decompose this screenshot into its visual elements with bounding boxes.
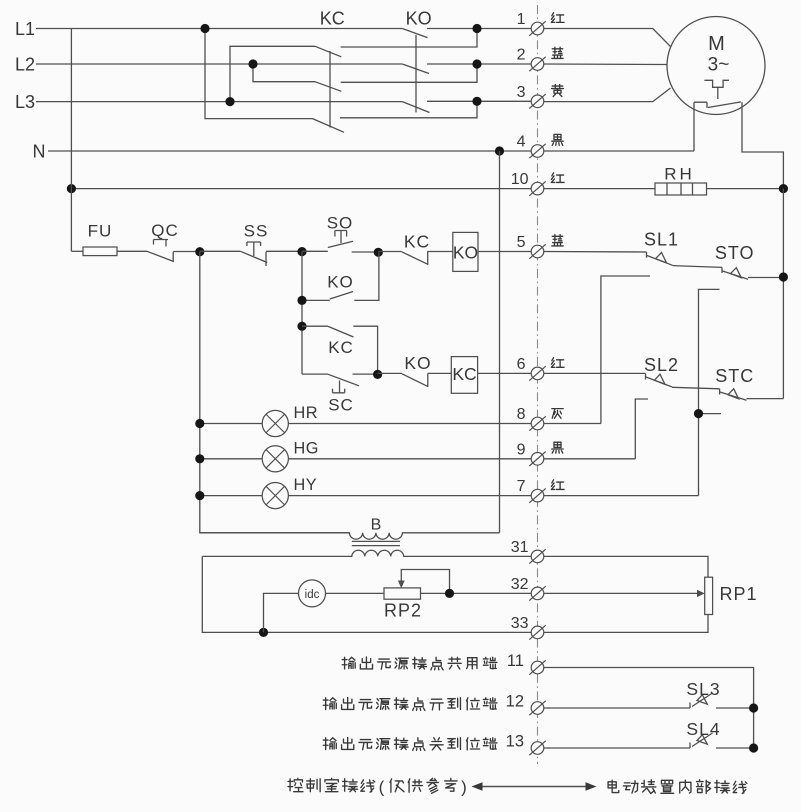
terminal 4 [531,145,544,158]
rheostat RP2 [384,588,421,599]
wire KC out to terminal 3 riser [340,101,477,118]
label colour 黑 [552,134,563,145]
label colour 红 [551,173,564,183]
wire terminal32 to RP1 wiper [544,592,699,594]
svg-text:RP2: RP2 [384,601,422,621]
terminal 33 [531,626,544,639]
svg-text:32: 32 [511,576,529,593]
svg-text:HG: HG [294,439,319,457]
wire RH to right bus [707,188,784,190]
node SO out [374,248,383,257]
terminal 2 [531,58,544,71]
potentiometer RP1 [705,577,713,614]
label terminal 12 description [323,698,336,710]
node KC hold top [297,322,306,331]
transformer secondary [202,550,531,556]
svg-text:11: 11 [507,652,524,670]
wire L2 branch to KC [253,64,315,82]
label colour 蓝 [552,47,563,58]
svg-text:KO: KO [406,9,432,29]
wire L1 drop to fuse [70,29,72,252]
svg-text:FU: FU [88,222,113,241]
wire terminal12 to SL3 [544,707,691,709]
svg-text:HY: HY [294,476,318,494]
node lamp rail HG [195,454,204,463]
node SL4 bus [749,743,758,752]
pushbutton SO [302,250,328,252]
wire STO/STC throws to terminal 7 [699,289,720,495]
node lamp rail HR [195,419,204,428]
wire terminal33 to RP1 bottom [544,615,709,633]
wire L2 to terminal 2 [427,63,532,65]
self-hold branch column [301,252,303,375]
svg-text:33: 33 [511,615,529,632]
svg-text:12: 12 [506,693,524,711]
transformer core [352,540,400,542]
wire terminal10 to RH [544,188,656,190]
wire KC out to terminal 1 riser [341,29,477,48]
svg-text:HR: HR [294,404,319,422]
wire terminal6 to SL2 [544,372,646,374]
contact KO phase C [402,102,429,113]
node L1 junction [200,24,209,33]
RP2 wiper arrow [401,570,449,594]
wire terminal4 to motor [544,150,695,152]
contact KC NC (opening interlock) [378,251,401,253]
label terminal 13 description [323,738,336,750]
svg-text:5: 5 [517,234,526,251]
terminal 10 [531,182,544,195]
svg-text:L1: L1 [15,19,35,39]
wire KC coil to terminal 6 [478,372,532,374]
right bus [782,189,784,399]
svg-text:idc: idc [305,589,320,601]
wire SL2 NC throw to terminal 9 [635,399,648,459]
wire motor lead W [544,88,671,102]
svg-text:SS: SS [244,222,269,241]
wire secondary left down to row33 [202,556,531,632]
coil return column [499,151,501,533]
transformer primary [200,533,500,539]
node row10 tap [67,184,76,193]
contact KC phase (L3) [315,46,341,57]
svg-text:13: 13 [506,733,524,751]
wire motor lead U [544,29,671,47]
wire terminal13 to SL4 [544,747,691,749]
node SL3 bus [749,703,758,712]
svg-text:L2: L2 [15,55,35,75]
limit switch STC [720,389,747,400]
svg-text:M: M [708,33,725,55]
svg-text:31: 31 [511,539,529,556]
svg-text:QC: QC [151,221,179,240]
terminal 9 [531,453,544,466]
svg-text:(: ( [379,778,385,797]
wire motor contact left down to terminal4 line [693,102,695,151]
wire terminal7 right [544,495,699,497]
terminal 12 [531,702,544,715]
wire terminal5 to SL1 [544,251,647,254]
svg-text:SL2: SL2 [644,355,679,375]
label colour 红 [551,358,564,368]
svg-text:10: 10 [511,171,529,188]
terminal 6 [531,367,544,380]
svg-text:L3: L3 [15,92,35,112]
fuse FU [71,250,83,252]
wire KO coil to terminal 5 [478,251,532,253]
terminal 1 [531,22,544,35]
label colour 黄 [552,85,564,97]
wire terminal11 to SL3/SL4 bus [544,668,754,749]
node terminal3 junction [472,97,481,106]
node KO hold top [297,296,306,305]
contact KC phase (L2) [315,82,341,92]
wire KC out to terminal 2 riser [341,64,477,82]
wire terminal9 right [544,458,636,460]
wire L3 rail [36,101,402,103]
svg-text:SL1: SL1 [644,230,679,250]
label colour 黑 [552,442,563,453]
limit switch SL1 [647,252,673,265]
limit switch STO [722,267,748,279]
label colour 蓝 [552,235,563,246]
terminal 7 [531,489,544,502]
svg-text:9: 9 [517,441,526,458]
wire row10 rail [71,188,531,190]
node terminal1 junction [472,24,481,33]
svg-text:KO: KO [327,273,354,292]
svg-text:4: 4 [517,134,526,151]
label colour 红 [551,13,564,23]
svg-text:SC: SC [328,396,354,415]
label terminal 11 description [342,657,355,669]
svg-text:N: N [33,142,46,162]
limit switch SL3 [690,693,713,708]
caption control room side [288,778,303,791]
svg-text:KO: KO [453,242,478,262]
lamp HG [200,458,262,460]
svg-text:6: 6 [517,356,526,373]
wire STO to right bus [748,277,783,279]
limit switch SL2 [646,373,673,387]
node idc return [259,628,268,637]
svg-text:8: 8 [517,406,526,423]
wire SL2 to STC [672,387,720,389]
current source idc [299,580,326,607]
svg-text:B: B [371,517,382,534]
svg-text:KC: KC [328,338,354,357]
svg-text:SL3: SL3 [686,679,720,699]
wire SL1 to STO [673,266,722,268]
terminal 32 [531,587,544,600]
motor thermal element [704,80,729,87]
terminal 8 [531,417,544,430]
svg-text:KO: KO [404,353,431,373]
wire idc to RP2 [326,592,385,594]
wire motor contact right down [742,102,783,188]
label colour 红 [551,480,564,490]
node RP2 wiper tie [445,589,454,598]
svg-text:KC: KC [320,9,345,29]
wire RP2 to terminal 32 [421,592,532,594]
wire motor lead V [544,63,668,66]
svg-text:SO: SO [327,214,354,233]
node N to coil column [495,146,504,155]
resistor RH [655,183,707,195]
svg-text:3: 3 [517,84,526,101]
svg-text:2: 2 [517,47,526,64]
node SC out [373,370,382,379]
caption double arrow [479,786,589,788]
caption actuator side [608,780,619,792]
terminal 3 [531,95,544,108]
coil KO [453,232,478,271]
switch SS [200,250,241,252]
wire idc left [264,593,299,632]
svg-text:RH: RH [664,165,695,184]
node QC out [195,247,204,256]
contact KC self-hold [302,325,328,327]
node SS out [297,247,306,256]
label colour 灰 [552,409,563,419]
contact KO phase B [402,64,429,74]
node lamp rail HY [195,491,204,500]
motor thermal stem [717,87,719,99]
motor thermal contact [694,102,741,108]
svg-text:3~: 3~ [708,55,730,76]
svg-text:7: 7 [517,478,526,495]
wire SL1 NC throw to terminal 8 [601,276,650,424]
svg-text:STO: STO [715,243,755,263]
coil KC [451,357,477,394]
node throw column [694,409,703,418]
wire N rail [48,150,532,152]
svg-text:RP1: RP1 [720,584,758,604]
wire L1 rail [36,28,402,30]
wire terminal8 right [544,423,601,425]
wire L3 to terminal 3 [427,100,532,102]
svg-text:): ) [461,778,467,797]
svg-text:1: 1 [517,11,526,28]
stub STC throw [699,413,722,415]
contact KC phase (L1) [313,119,345,133]
KC linkage [329,51,331,128]
wire L2 rail [36,63,402,65]
terminal 5 [531,245,544,258]
lamp supply rail [200,252,350,533]
motor M circle [667,17,765,115]
svg-text:STC: STC [715,366,754,386]
lamp HY [200,495,262,497]
svg-text:KC: KC [404,232,430,252]
terminal strip centre line [537,5,539,764]
pushbutton SC [302,373,328,375]
wire terminal31 to RP1 top [544,556,709,577]
wire L1 branch down to KC [205,29,313,119]
contact KO phase A [402,29,427,38]
node L3 junction [225,97,234,106]
node L2 junction [248,59,257,68]
contact KO self-hold [302,299,330,301]
wire L3 branch up to KC [230,46,315,101]
KO linkage [415,35,417,113]
wire STC to right bus [747,398,784,400]
wire L1 to terminal 1 [427,28,532,30]
terminal 13 [531,742,544,755]
contact KO NC (closing interlock) [378,372,402,374]
terminal 11 [531,661,544,674]
terminal 31 [531,550,544,563]
breaker QC [147,240,174,263]
node STO bus [779,272,788,281]
node right bus RH [779,184,788,193]
svg-text:KC: KC [452,364,476,384]
svg-text:SL4: SL4 [686,719,720,739]
lamp HR [200,423,262,425]
limit switch SL4 [690,733,713,748]
node terminal2 junction [472,59,481,68]
